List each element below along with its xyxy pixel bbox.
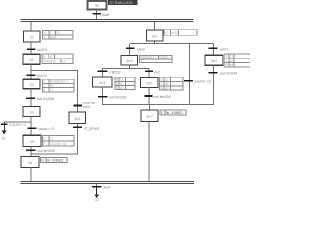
transition not lim206 <box>98 96 126 100</box>
wire step362 to convergence2 <box>213 65 214 105</box>
svg-text:e4o2: e4o2 <box>137 47 145 51</box>
wire divergence to step 363 <box>129 44 130 55</box>
branch wire count=x3 <box>189 44 190 104</box>
initial step 30 <box>88 1 107 10</box>
svg-text:c0: c0 <box>230 59 234 63</box>
action block A32 <box>42 54 73 64</box>
action block A367 <box>160 110 186 115</box>
transition not lim204 right <box>209 72 238 76</box>
wire divergence2 to step 365 <box>149 69 150 77</box>
svg-text:count==3: count==3 <box>38 127 54 131</box>
svg-text:NSF2001: NSF2001 <box>141 56 155 60</box>
svg-text:Tw0: Tw0 <box>103 186 110 190</box>
step 362 <box>205 55 223 65</box>
transition st_joined <box>73 126 99 130</box>
svg-text:33: 33 <box>29 82 34 87</box>
wire step30 to top rail <box>96 10 97 20</box>
action block A31 <box>43 31 74 40</box>
jump arrow to 31 <box>2 122 7 140</box>
svg-text:36: 36 <box>28 160 33 165</box>
svg-text:E: E <box>44 88 46 92</box>
transition ev2 <box>145 70 160 74</box>
action block A362 <box>224 54 251 67</box>
wire step363 down to divergence2 <box>129 65 130 68</box>
transition not th206 <box>26 97 54 101</box>
svg-text:30: 30 <box>95 3 100 8</box>
svg-text:not th(206: not th(206 <box>37 97 54 101</box>
wire step366 down to or-convergence <box>77 124 78 154</box>
svg-text:1: 1 <box>225 59 227 63</box>
svg-text:34: 34 <box>29 110 34 115</box>
transition e4o2 <box>126 47 145 51</box>
transition not lim204 mid <box>144 95 171 99</box>
svg-text:31: 31 <box>2 136 6 140</box>
action block A36 <box>41 157 68 162</box>
transition CB202 <box>98 70 121 74</box>
transition amr1 <box>209 47 229 51</box>
svg-text:COUNT_x0: COUNT_x0 <box>50 142 67 146</box>
action block A361 <box>164 30 197 35</box>
svg-text:3e1: 3e1 <box>151 33 158 38</box>
svg-text:COUNT< 3: COUNT< 3 <box>9 123 26 127</box>
wire step365 to convergence2 <box>149 88 150 104</box>
svg-text:3e4: 3e4 <box>74 116 81 121</box>
svg-text:t.1: t.1 <box>50 137 54 141</box>
transition not lim305 <box>26 149 55 153</box>
svg-text:t.2: t.2 <box>165 31 169 35</box>
action block A33 <box>43 79 75 92</box>
svg-text:t.d: t.d <box>62 60 66 64</box>
svg-text:rst: rst <box>230 63 234 67</box>
svg-text:lib_JOINED: lib_JOINED <box>166 111 183 115</box>
svg-text:3e4: 3e4 <box>99 80 106 85</box>
step 361 <box>147 30 164 41</box>
wire convergence2 to step 367 <box>149 105 150 110</box>
chart title label G7 <box>108 0 138 5</box>
wire step34 down <box>31 117 32 135</box>
svg-text:st_joined: st_joined <box>84 126 99 130</box>
svg-text:DDF: DDF <box>50 35 57 39</box>
wire step367 to bottom rail <box>149 122 150 182</box>
wire step31 to step32 <box>31 42 32 54</box>
wire step35 to step36 <box>31 146 32 156</box>
transition kp201 <box>27 48 48 52</box>
svg-text:30: 30 <box>95 198 99 201</box>
transition Tw0 <box>92 186 110 190</box>
step 364 <box>93 77 113 87</box>
svg-text:count= x3: count= x3 <box>194 80 211 84</box>
or-divergence line after 34 <box>4 121 32 122</box>
step 31 <box>24 31 41 42</box>
svg-text:St_JOINED: St_JOINED <box>47 158 64 162</box>
svg-text:3e5: 3e5 <box>146 81 153 86</box>
svg-text:th202: th202 <box>37 74 47 78</box>
wire divergence2 to step 364 <box>102 69 103 77</box>
svg-text:ev2: ev2 <box>154 70 160 74</box>
step 36 <box>21 157 39 168</box>
wire step361 to divergence <box>154 41 155 44</box>
transition count=x3 <box>184 80 211 84</box>
bottom parallel convergence double rail <box>20 181 193 184</box>
svg-text:c1: c1 <box>230 54 234 58</box>
or-divergence line after 32 <box>31 70 79 71</box>
step 34 <box>23 107 40 117</box>
step 35 <box>23 135 41 146</box>
or-convergence from branch 366 <box>31 154 79 155</box>
svg-text:32: 32 <box>29 57 34 62</box>
wire bottom rail to transition <box>96 184 97 187</box>
top parallel divergence double rail <box>20 19 193 22</box>
svg-text:not lim206: not lim206 <box>109 96 127 100</box>
transition th202 <box>27 74 47 78</box>
svg-text:start: start <box>102 13 110 17</box>
step 365 <box>141 78 159 88</box>
svg-text:not lim305: not lim305 <box>37 149 55 153</box>
svg-text:c0: c0 <box>165 86 169 90</box>
svg-text:not lim204: not lim204 <box>153 95 171 99</box>
svg-text:3e7: 3e7 <box>146 114 153 119</box>
svg-text:1: 1 <box>141 59 143 63</box>
svg-text:c0: c0 <box>120 86 124 90</box>
svg-text:amr1: amr1 <box>220 47 229 51</box>
step 32 <box>23 54 40 64</box>
or-divergence line after 361 <box>130 43 214 44</box>
wire divergence to step 362 <box>213 44 214 55</box>
svg-text:31: 31 <box>29 34 34 39</box>
svg-text:PWM202: PWM202 <box>43 60 56 64</box>
svg-text:e4o2: e4o2 <box>83 105 91 109</box>
wire step364 to convergence2 <box>102 87 103 104</box>
transition start <box>92 13 110 17</box>
wire step32 down to divergence <box>31 64 32 71</box>
action block A365 <box>160 77 184 90</box>
jump arrow to 30 <box>94 187 99 202</box>
svg-text:3e3: 3e3 <box>126 58 133 63</box>
svg-text:1: 1 <box>161 111 163 115</box>
svg-text:kp201: kp201 <box>37 48 47 52</box>
action block A35 <box>43 136 75 146</box>
or-divergence line after 363 <box>102 68 150 69</box>
svg-text:CB202: CB202 <box>109 70 121 74</box>
step 366 <box>69 112 86 124</box>
svg-text:not lim204: not lim204 <box>220 72 238 76</box>
svg-text:+1: +1 <box>50 88 54 92</box>
step 363 <box>121 56 138 65</box>
wire step33 to step34 <box>31 89 32 107</box>
wire divergence to step 33 <box>31 71 32 79</box>
or-convergence line into 367 <box>102 104 214 105</box>
svg-text:F: F <box>44 142 46 146</box>
branch wire x77 from divergence down to step 366 <box>77 70 78 112</box>
transition COUNT<3 <box>1 123 26 127</box>
wire rail to step 361 <box>154 22 155 30</box>
transition count==3 <box>27 127 53 131</box>
transition error for e4o2 <box>73 101 96 109</box>
svg-text:3e2: 3e2 <box>211 58 218 63</box>
svg-text:ev2(: ev2( <box>172 31 179 35</box>
svg-text:35: 35 <box>30 139 35 144</box>
svg-text:s1: s1 <box>49 55 53 59</box>
svg-text:D1: D1 <box>56 31 60 35</box>
step 33 <box>23 79 40 89</box>
svg-text:CB20: CB20 <box>160 56 168 60</box>
svg-text:G7 EVACUATE: G7 EVACUATE <box>110 1 134 5</box>
svg-text:1: 1 <box>44 35 46 39</box>
wire step36 to bottom rail <box>31 168 32 182</box>
action block A364 <box>115 77 135 90</box>
wire rail to step 31 <box>31 22 32 31</box>
action block A363 <box>140 56 173 64</box>
step 367 <box>141 110 158 122</box>
